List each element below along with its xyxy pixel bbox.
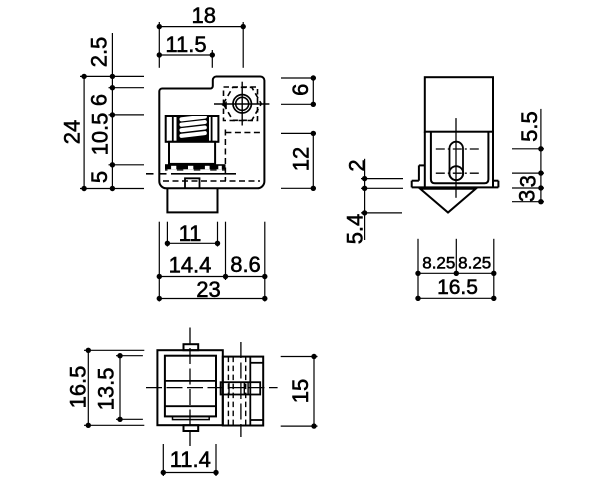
svg-text:5.5: 5.5	[517, 111, 542, 142]
svg-text:2.5: 2.5	[87, 37, 112, 68]
svg-text:11.4: 11.4	[170, 447, 211, 472]
svg-text:8.6: 8.6	[230, 252, 261, 277]
svg-text:8.25: 8.25	[422, 253, 455, 272]
svg-text:16.5: 16.5	[66, 366, 91, 409]
svg-text:16.5: 16.5	[437, 276, 478, 299]
svg-text:24: 24	[60, 120, 85, 144]
svg-text:12: 12	[289, 147, 314, 171]
svg-text:18: 18	[191, 3, 215, 28]
svg-text:14.4: 14.4	[169, 253, 212, 278]
svg-text:5.4: 5.4	[342, 214, 367, 245]
svg-text:23: 23	[196, 277, 220, 302]
svg-text:10.5: 10.5	[88, 113, 113, 156]
svg-text:11.5: 11.5	[165, 32, 206, 57]
svg-text:15: 15	[288, 379, 313, 403]
svg-text:6: 6	[288, 84, 313, 96]
svg-text:8.25: 8.25	[458, 253, 491, 272]
svg-text:11: 11	[179, 221, 202, 246]
svg-text:6: 6	[87, 94, 112, 106]
svg-text:2: 2	[344, 159, 369, 171]
svg-text:5: 5	[87, 171, 112, 183]
svg-text:13.5: 13.5	[93, 367, 118, 410]
svg-text:3: 3	[514, 190, 539, 202]
svg-text:3: 3	[516, 175, 541, 187]
